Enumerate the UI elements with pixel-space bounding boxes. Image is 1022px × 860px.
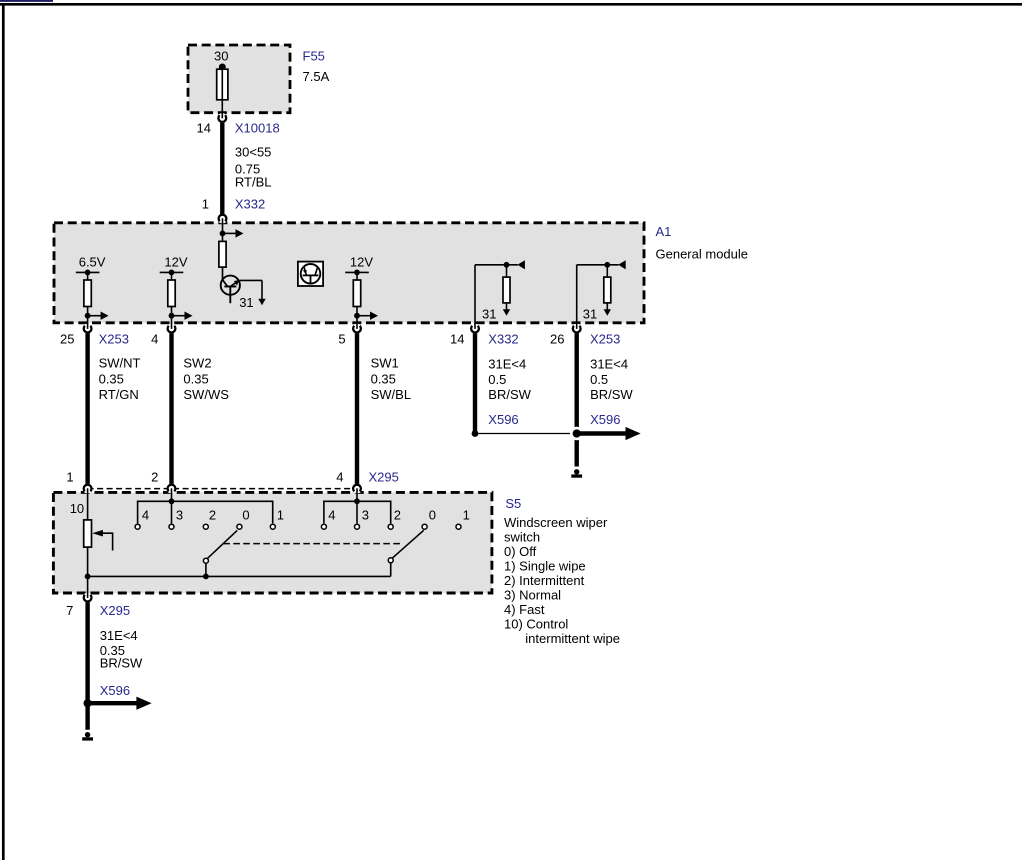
svg-text:X332: X332 — [235, 196, 265, 211]
svg-text:31E<4: 31E<4 — [590, 356, 628, 371]
svg-text:1: 1 — [277, 508, 284, 523]
svg-text:26: 26 — [550, 332, 564, 347]
svg-text:1: 1 — [463, 508, 470, 523]
svg-text:7: 7 — [66, 603, 73, 618]
svg-text:4: 4 — [336, 470, 343, 485]
svg-text:4: 4 — [328, 508, 335, 523]
svg-text:RT/BL: RT/BL — [235, 174, 272, 189]
svg-text:intermittent wipe: intermittent wipe — [525, 631, 620, 646]
svg-text:X253: X253 — [590, 332, 620, 347]
svg-text:SW1: SW1 — [371, 355, 399, 370]
svg-text:12V: 12V — [164, 255, 187, 270]
svg-text:X295: X295 — [100, 603, 130, 618]
svg-text:1: 1 — [66, 470, 73, 485]
svg-text:2: 2 — [151, 470, 158, 485]
svg-text:5: 5 — [338, 332, 345, 347]
svg-text:0.35: 0.35 — [371, 371, 396, 386]
svg-text:0.35: 0.35 — [183, 371, 208, 386]
svg-text:10) Control: 10) Control — [504, 617, 568, 632]
svg-text:30<55: 30<55 — [235, 145, 272, 160]
svg-text:2: 2 — [394, 508, 401, 523]
svg-text:3) Normal: 3) Normal — [504, 588, 561, 603]
svg-text:14: 14 — [450, 332, 464, 347]
svg-text:4: 4 — [151, 332, 158, 347]
svg-text:31E<4: 31E<4 — [488, 356, 526, 371]
svg-text:2: 2 — [209, 508, 216, 523]
svg-text:31: 31 — [482, 306, 496, 321]
svg-text:X596: X596 — [488, 412, 518, 427]
svg-text:General module: General module — [656, 246, 749, 261]
svg-text:10: 10 — [70, 501, 84, 516]
svg-text:F55: F55 — [303, 48, 325, 63]
svg-text:BR/SW: BR/SW — [488, 387, 531, 402]
svg-text:4) Fast: 4) Fast — [504, 602, 545, 617]
svg-text:0: 0 — [429, 508, 436, 523]
svg-text:X295: X295 — [369, 470, 399, 485]
svg-text:3: 3 — [176, 508, 183, 523]
svg-text:4: 4 — [142, 508, 149, 523]
svg-text:0.35: 0.35 — [99, 371, 124, 386]
svg-text:3: 3 — [362, 508, 369, 523]
svg-text:BR/SW: BR/SW — [590, 387, 633, 402]
svg-text:1: 1 — [202, 196, 209, 211]
svg-text:12V: 12V — [350, 255, 373, 270]
svg-text:31E<4: 31E<4 — [100, 628, 138, 643]
svg-text:SW2: SW2 — [183, 355, 211, 370]
svg-text:31: 31 — [583, 306, 597, 321]
svg-text:X332: X332 — [488, 332, 518, 347]
svg-text:S5: S5 — [505, 496, 521, 511]
svg-text:0.5: 0.5 — [488, 372, 506, 387]
svg-text:SW/BL: SW/BL — [371, 387, 411, 402]
svg-text:SW/NT: SW/NT — [99, 355, 141, 370]
svg-text:X253: X253 — [99, 332, 129, 347]
svg-text:14: 14 — [197, 120, 211, 135]
svg-text:0: 0 — [242, 508, 249, 523]
svg-text:30: 30 — [214, 48, 228, 63]
svg-text:switch: switch — [504, 530, 540, 545]
svg-text:7.5A: 7.5A — [303, 69, 330, 84]
svg-text:0.5: 0.5 — [590, 372, 608, 387]
svg-text:BR/SW: BR/SW — [100, 656, 143, 671]
svg-text:1) Single wipe: 1) Single wipe — [504, 559, 586, 574]
svg-text:2) Intermittent: 2) Intermittent — [504, 573, 585, 588]
svg-text:6.5V: 6.5V — [79, 255, 106, 270]
svg-text:0) Off: 0) Off — [504, 544, 537, 559]
svg-text:RT/GN: RT/GN — [99, 387, 139, 402]
svg-text:25: 25 — [60, 332, 74, 347]
svg-text:SW/WS: SW/WS — [183, 387, 229, 402]
svg-text:31: 31 — [239, 295, 253, 310]
svg-text:X596: X596 — [100, 683, 130, 698]
svg-text:X10018: X10018 — [235, 120, 280, 135]
svg-text:X596: X596 — [590, 412, 620, 427]
svg-text:A1: A1 — [656, 224, 672, 239]
svg-text:Windscreen wiper: Windscreen wiper — [504, 515, 608, 530]
